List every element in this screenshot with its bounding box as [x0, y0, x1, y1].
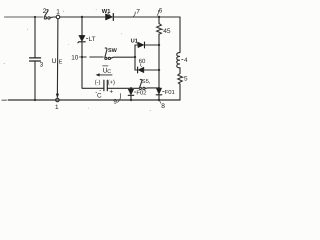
label LT with dash — [86, 38, 88, 40]
wire diode 60 to node — [144, 69, 159, 71]
label 4 with dash — [182, 58, 184, 60]
svg-text:(+): (+) — [108, 79, 115, 86]
wire inductor to resistor 5 — [179, 68, 181, 74]
voltage arrow UE head — [56, 94, 59, 99]
wire top rail node1 to diode W1 — [60, 16, 105, 18]
wire y88 from zener branch to capacitor C — [82, 87, 103, 89]
wire from switch 2 to node 1 — [50, 16, 56, 19]
junction tee at 135,57 — [134, 56, 136, 58]
svg-text:SW: SW — [108, 48, 118, 54]
svg-text:S5,: S5, — [142, 79, 151, 85]
current arrow (points left) — [99, 74, 112, 76]
diode W1 — [106, 14, 113, 20]
wire to diode 60 — [135, 69, 137, 71]
wire to diode U1 — [135, 44, 138, 46]
capacitor C right plate — [106, 80, 108, 91]
diode 60 (lower, points left) — [137, 67, 139, 73]
wire F01 to bottom rail — [158, 95, 160, 100]
wire capacitor-3 branch top — [34, 17, 36, 57]
inductor 4 coil — [177, 53, 180, 68]
node 1 terminal circle (top) — [56, 15, 60, 19]
wire switch SW to tee — [111, 57, 135, 58]
resistor 45 zigzag — [157, 24, 162, 35]
node 1 terminal circle (bottom) — [56, 98, 60, 102]
wire zener to node 10 and down — [81, 43, 83, 89]
zener diode LT — [79, 35, 85, 41]
svg-text:8: 8 — [161, 103, 165, 110]
junction at 131,88 — [130, 87, 132, 89]
switch LS5 contact circles — [139, 87, 141, 89]
wire capacitor C to F02 junction — [108, 87, 131, 89]
junction at 159,100 — [158, 99, 160, 101]
wire resistor 45 down through junctions to diode F01 — [158, 34, 160, 87]
svg-text:LT: LT — [89, 36, 96, 43]
wire switch LS5 to F01 node — [145, 87, 159, 90]
switch SW contact circles — [105, 57, 107, 59]
label F01 with dash — [163, 91, 165, 93]
wire junction to switch LS5 — [131, 87, 138, 89]
voltage arrow UE line — [56, 19, 59, 94]
junction at 159,45 — [158, 44, 160, 46]
wire node 6 down to resistor 45 — [158, 17, 160, 24]
svg-text:U1: U1 — [131, 39, 138, 45]
diode F02 (points down) — [128, 89, 133, 95]
switch LS5 lever — [140, 79, 142, 87]
bottom rail left dash — [2, 99, 6, 101]
junction at 159,88 — [158, 87, 160, 89]
svg-text:(-): (-) — [95, 79, 101, 86]
svg-text:3: 3 — [40, 61, 44, 68]
junction at 35,100 — [34, 99, 36, 101]
svg-text:F01: F01 — [165, 89, 175, 96]
svg-text:C: C — [107, 69, 111, 75]
wire capacitor-3 branch bottom — [34, 62, 36, 100]
svg-text:10: 10 — [71, 55, 79, 62]
svg-text:2: 2 — [43, 8, 47, 15]
node 6 junction — [158, 16, 161, 19]
junction at 35,17 — [34, 16, 36, 18]
node 10 junction — [81, 56, 84, 59]
capacitor 3 top plate — [30, 57, 41, 59]
junction at 159,70 — [158, 69, 160, 71]
switch 2 lever — [44, 10, 48, 17]
svg-text:1: 1 — [56, 9, 60, 16]
svg-text:4: 4 — [184, 57, 188, 64]
label F02 with dash — [134, 91, 135, 93]
svg-text:U: U — [52, 58, 57, 65]
svg-text:5: 5 — [184, 76, 188, 83]
svg-text:45: 45 — [163, 28, 171, 35]
zener branch wire from top rail — [81, 17, 83, 35]
capacitor C left plate — [103, 80, 105, 91]
wire bottom rail — [8, 99, 180, 101]
junction at 131,100 — [130, 99, 132, 101]
wire F02 to bottom rail — [130, 96, 132, 100]
svg-text:60: 60 — [139, 58, 146, 65]
svg-text:W1: W1 — [102, 9, 111, 15]
wire diode U1 to node — [145, 44, 159, 46]
net label 7 leader — [133, 12, 135, 17]
svg-text:+: + — [109, 88, 113, 95]
svg-text:F02: F02 — [136, 90, 146, 97]
capacitor 3 bottom plate — [30, 60, 41, 62]
switch SW lever — [105, 48, 107, 57]
switch 2 contact circles — [44, 17, 46, 19]
scan speckles — [4, 9, 151, 111]
diode F01 (points down) — [156, 88, 161, 94]
diode U1 (upper, points right) — [138, 42, 144, 47]
wire top rail diode W1 to right corner — [114, 16, 180, 18]
svg-text:1: 1 — [55, 104, 59, 111]
wire node10 to switch SW — [84, 56, 104, 58]
label 45 with dash — [162, 29, 163, 31]
label 8 below rail with leader — [160, 101, 161, 103]
svg-text:7: 7 — [136, 9, 140, 16]
label 5 with dash — [182, 76, 183, 78]
wire top rail left segment — [5, 16, 43, 18]
junction at 82,17 — [81, 16, 83, 18]
svg-text:E: E — [59, 60, 63, 66]
svg-text:6: 6 — [159, 8, 163, 15]
right branch corner from top rail — [179, 17, 181, 53]
svg-text:C: C — [97, 92, 102, 99]
resistor 5 zigzag — [178, 73, 182, 84]
node 6 leader — [157, 10, 158, 15]
wire vertical 135 between diode branches — [134, 45, 136, 70]
wire resistor 5 to bottom rail — [179, 84, 181, 100]
